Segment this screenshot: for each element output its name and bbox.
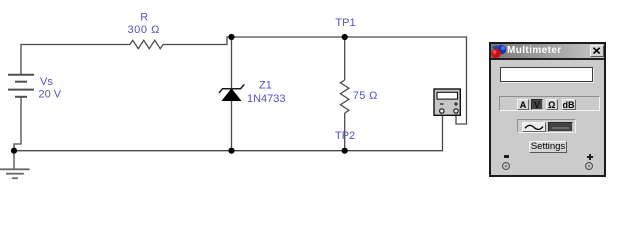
title bar [491, 44, 604, 58]
svg-text:TP2: TP2 [335, 130, 355, 142]
wire zener bottom [231, 101, 233, 151]
ground symbol [0, 169, 30, 178]
plus terminal [585, 162, 593, 170]
button V pressed [531, 99, 543, 110]
wire battery top to resistor [21, 45, 130, 76]
sine button [522, 122, 546, 132]
wire battery bottom to ground node [14, 97, 21, 151]
bottom wire [14, 116, 443, 151]
svg-text:300 Ω: 300 Ω [128, 24, 160, 36]
svg-text:1N4733: 1N4733 [247, 93, 286, 105]
svg-text:75 Ω: 75 Ω [353, 90, 378, 102]
wire ground node to ground symbol [13, 151, 15, 169]
mode frame [499, 96, 600, 111]
minus terminal [502, 162, 510, 170]
resistor R2 75 ohm zigzag [340, 80, 349, 113]
button ohm [546, 99, 559, 110]
dc button pressed [548, 122, 573, 132]
settings button [529, 141, 567, 153]
button dB [562, 99, 576, 110]
window icon [491, 44, 508, 58]
wire load resistor to TP2 [344, 113, 346, 151]
junction dot zener bottom [228, 148, 234, 154]
plus sign [587, 156, 593, 158]
svg-text:Vs: Vs [40, 76, 53, 88]
multimeter probe icon XMM1 [434, 89, 460, 115]
svg-text:TP1: TP1 [335, 17, 355, 29]
close button [590, 45, 604, 57]
wire resistor to zener node with step [163, 37, 232, 45]
junction dot TP2 [342, 148, 348, 154]
svg-text:20 V: 20 V [39, 89, 62, 101]
button A [517, 99, 529, 110]
battery Vs plates [8, 75, 34, 97]
resistor R1 zigzag [130, 40, 163, 48]
waveform frame [517, 119, 576, 133]
svg-text:R: R [140, 12, 148, 24]
junction dot ground node [11, 148, 17, 154]
junction dot zener top [228, 34, 234, 40]
minus sign [504, 155, 509, 157]
display field [500, 67, 593, 82]
dark line under titlebar [491, 58, 604, 60]
svg-text:Z1: Z1 [259, 80, 272, 92]
zener diode Z1 [219, 84, 244, 100]
wire zener top [231, 37, 233, 89]
wire TP1 down to load resistor [344, 37, 346, 80]
wire top node row to multimeter plus [232, 37, 467, 124]
junction dot TP1 [342, 34, 348, 40]
multimeter panel window [489, 42, 606, 177]
